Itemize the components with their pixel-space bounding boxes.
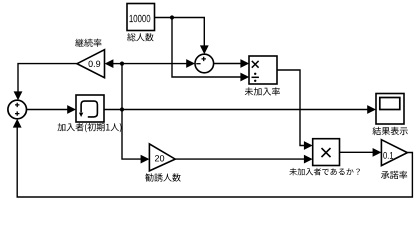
wire: subscriber signal to top sum circle minus input	[122, 63, 187, 65]
scope screen inner rectangle	[380, 98, 400, 110]
label 総人数 under constant	[127, 33, 154, 41]
product block 未加入者であるか?	[313, 139, 340, 166]
minus sign on S1 left input	[196, 63, 200, 65]
plus sign on S2 top input	[15, 103, 19, 107]
value 20	[155, 155, 164, 161]
label 未加入者であるか？ under product	[289, 168, 360, 175]
gain block 20 勧誘人数 (points right)	[149, 144, 175, 171]
divide block 未加入率	[249, 56, 277, 84]
label 勧誘人数 under gain 20	[145, 173, 181, 181]
wire: product output into gain 0.1	[340, 151, 374, 153]
node A junction dot (constant output branch)	[170, 15, 174, 19]
unit delay loop icon	[81, 101, 97, 117]
plus sign on S1 top input	[202, 57, 206, 61]
wire: vertical subscriber bus x=122 from y63.6 through junction to gain 20 input	[122, 64, 142, 160]
label 継続率 above gain 0.9	[75, 39, 101, 47]
value 0.9	[89, 61, 101, 67]
wire: branch from node A down to divide block lower port	[172, 18, 241, 78]
wire: subscriber signal up to gain 0.9 input (leftward)	[112, 63, 122, 65]
unit delay block 加入者	[76, 95, 104, 122]
gain block 0.1 承諾率 (points right)	[381, 140, 407, 166]
wire: divide output elbow down into product block upper port	[277, 70, 305, 146]
wire: gain 0.1 output feedback around bottom into left sum plus input	[17, 126, 412, 197]
wire: constant 10000 output to top sum junction and elbow down	[155, 18, 205, 47]
label 承諾率 under gain 0.1	[381, 171, 407, 179]
wire: top sum output into divide block upper port	[214, 63, 242, 65]
wire: gain 0.9 output left then down into left sum plus input	[18, 64, 78, 93]
sum circle S1 (top, 10000 minus subscribers)	[195, 54, 214, 73]
display block 結果表示 (scope)	[376, 94, 404, 125]
plus sign on S2 bottom input	[15, 111, 19, 115]
label 加入者(初期1人) under unit delay	[58, 123, 122, 132]
value 0.1	[383, 152, 393, 159]
label 結果表示 under display	[373, 127, 408, 135]
node C junction dot (subscriber output cross)	[120, 107, 124, 111]
wire: unit delay output across to result display	[104, 109, 368, 111]
constant block 10000 (総人数)	[127, 4, 155, 31]
value 10000	[130, 15, 151, 22]
wire: left sum output into unit delay block	[27, 109, 69, 111]
sum circle S2 (left, 0.9 feedback plus new subscribers)	[8, 100, 27, 119]
gain block 0.9 継続率 (points left)	[77, 50, 105, 78]
wire: gain 20 output into product block lower port	[175, 158, 305, 160]
label 未加入率 under divide block	[245, 87, 280, 95]
node B junction dot (top T on subscriber bus)	[120, 62, 124, 66]
